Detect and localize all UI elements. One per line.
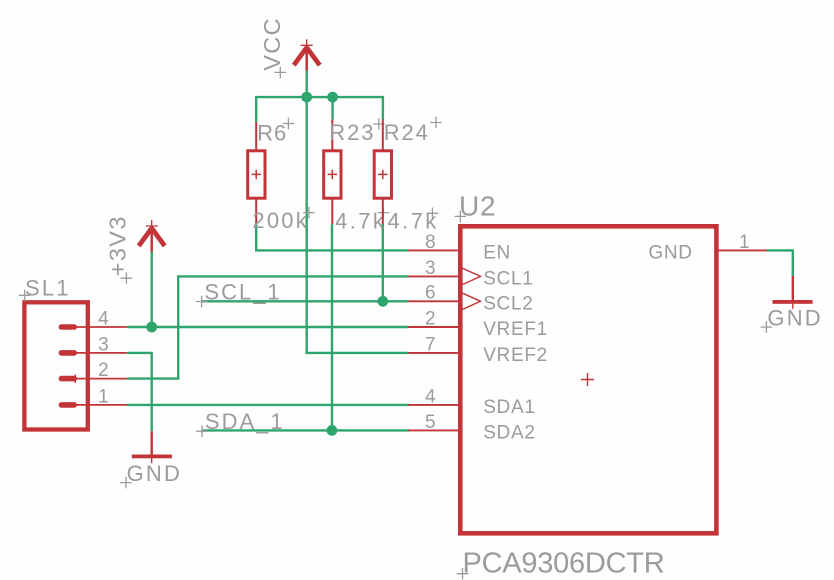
junction VCC rail at R23 (327, 92, 338, 103)
SL1 pin 3 stub and line (59, 350, 77, 356)
origin cross SL1 label (19, 290, 31, 302)
svg-text:VREF2: VREF2 (483, 345, 548, 366)
origin cross SCL_1 label (196, 296, 208, 308)
U2 pin 6 chevron (463, 293, 481, 309)
junction SDA_1 at R23 (327, 425, 338, 436)
svg-text:GND: GND (648, 243, 692, 264)
U2 pin 7 (VREF2) line (408, 352, 459, 354)
supply +3V3 arrow (139, 220, 165, 252)
origin cross R23 label (373, 118, 385, 130)
origin cross 200k (303, 207, 315, 219)
SL1 pin 1 stub and line (59, 402, 77, 408)
origin cross U2 center (581, 373, 594, 386)
svg-text:GND: GND (127, 461, 183, 486)
svg-text:R23: R23 (329, 120, 375, 145)
svg-text:3: 3 (98, 334, 109, 355)
resistor R24 pins (382, 120, 384, 225)
resistor R6 body (248, 151, 265, 198)
wire R24 bottom to SCL_1 junction (382, 224, 384, 301)
wire SL1 pin1 to SDA1 (pin 4) (127, 404, 410, 406)
origin cross R24 label (430, 117, 442, 129)
svg-text:2: 2 (98, 360, 109, 381)
wire net SCL_1 to SCL2 (pin 6) (202, 300, 409, 302)
wire SL1 pin4 to VREF1 (pin 2) (127, 326, 409, 328)
SL1 pin 4 stub and line (59, 324, 77, 330)
svg-text:4.7k: 4.7k (388, 208, 439, 233)
svg-text:SCL_1: SCL_1 (204, 280, 281, 305)
svg-text:EN: EN (483, 243, 511, 264)
supply +VCC arrow (294, 39, 320, 70)
svg-text:SDA1: SDA1 (483, 397, 535, 418)
svg-text:1: 1 (739, 232, 750, 253)
svg-text:PCA9306DCTR: PCA9306DCTR (463, 547, 665, 579)
U2 pin 5 (SDA2) line (408, 429, 459, 431)
wire SL1 pin3 to GND (127, 353, 152, 431)
connector SL1 box (24, 302, 87, 429)
svg-text:U2: U2 (459, 191, 496, 222)
svg-text:R6: R6 (257, 121, 287, 146)
U2 pin 3 (SCL1) line (408, 275, 459, 277)
wire +3V3 stem (150, 252, 152, 327)
ground GND left symbol (132, 431, 172, 463)
svg-text:VCC: VCC (259, 17, 285, 71)
IC U2 box (460, 226, 716, 533)
U2 pin 8 (EN) line (408, 249, 459, 251)
origin cross R6 label (283, 118, 295, 130)
svg-text:SCL1: SCL1 (483, 268, 533, 289)
origin cross +3V3 label (121, 272, 133, 284)
U2 pin 1 (GND) line right side (718, 249, 767, 251)
origin cross R24 (378, 170, 387, 179)
svg-text:6: 6 (425, 283, 436, 304)
wire R23 top stem (331, 97, 333, 119)
svg-text:VREF1: VREF1 (483, 319, 548, 340)
wire VCC stem and center vertical to VREF2 (pin 7) (307, 70, 409, 353)
svg-text:4: 4 (98, 308, 109, 329)
U2 pin 4 (SDA1) line (408, 404, 459, 406)
junction +3V3 / SL1 pin4 / VREF1 (146, 322, 157, 333)
svg-text:7: 7 (425, 334, 436, 355)
svg-text:SDA2: SDA2 (483, 422, 535, 443)
wire net SDA_1 to SDA2 (pin 5) (202, 429, 410, 431)
svg-text:GND: GND (767, 305, 823, 330)
svg-text:4: 4 (425, 386, 436, 407)
svg-text:2: 2 (425, 308, 436, 329)
wire SL1 pin2 to SCL1 (pin 3) (127, 276, 409, 378)
origin cross 4.7k R24 (427, 208, 439, 220)
origin cross R23 (328, 170, 337, 179)
resistor R23 pins (331, 120, 333, 225)
origin cross U2 label (455, 211, 467, 223)
svg-text:1: 1 (98, 386, 109, 407)
svg-text:SDA_1: SDA_1 (205, 409, 285, 434)
U2 pin 2 (VREF1) line (408, 326, 459, 328)
junction SCL_1 at R24 (377, 296, 388, 307)
U2 pin 3 chevron (463, 268, 481, 284)
origin cross SDA_1 label (196, 425, 208, 437)
SL1 pin 2 stub and line (59, 376, 77, 382)
svg-text:8: 8 (425, 232, 436, 253)
wire R6 bottom to EN (pin 8) (256, 224, 409, 250)
svg-text:5: 5 (425, 412, 436, 433)
origin cross 4.7k R23 (378, 207, 390, 219)
svg-text:+3V3: +3V3 (105, 215, 131, 276)
origin cross GND left label (120, 477, 132, 489)
svg-text:SL1: SL1 (25, 276, 71, 301)
svg-text:R24: R24 (384, 120, 430, 145)
origin cross VCC label (275, 67, 287, 79)
resistor R6 pins (255, 122, 257, 224)
ground GND right symbol (773, 276, 813, 309)
svg-text:3: 3 (425, 258, 436, 279)
U2 pin 6 (SCL2) line (408, 300, 459, 302)
origin cross R6 (252, 170, 261, 179)
resistor R23 body (324, 151, 341, 198)
resistor R24 body (374, 151, 391, 198)
wire R23 bottom to SDA_1 junction (331, 224, 333, 430)
svg-text:200k: 200k (252, 208, 309, 233)
wire VCC rail with resistor top stems (256, 97, 383, 122)
svg-text:SCL2: SCL2 (483, 293, 533, 314)
origin cross GND right label (761, 321, 773, 333)
junction VCC rail at center vertical (301, 92, 312, 103)
origin cross PCA9306DCTR label (457, 568, 469, 580)
wire U2 pin1 to GND right (767, 250, 793, 276)
